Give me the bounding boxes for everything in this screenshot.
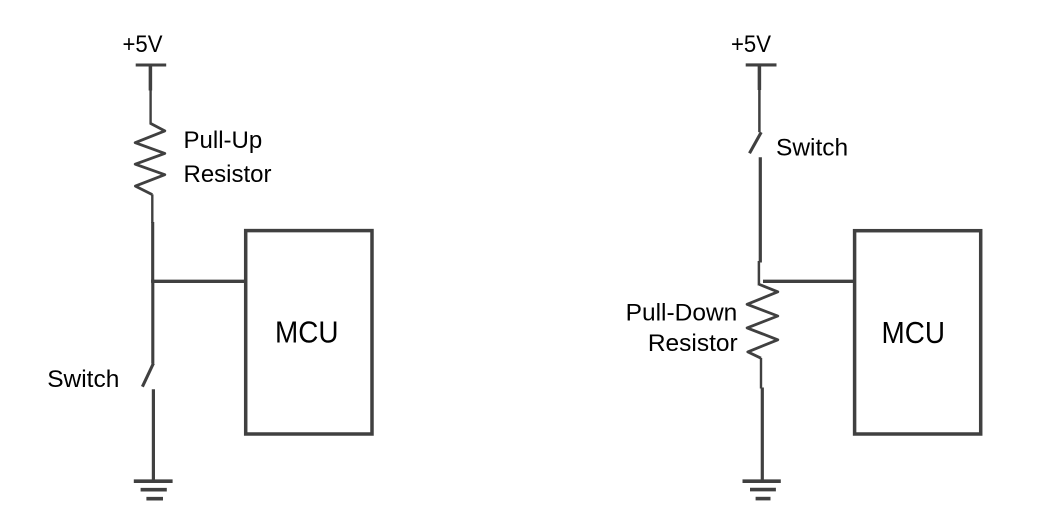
wire: +5V rail to switch (right) bbox=[758, 88, 761, 132]
svg-text:Switch: Switch bbox=[47, 366, 119, 393]
wire: switch to input node (right, upper) bbox=[759, 157, 762, 262]
wire: switch to ground (left) bbox=[152, 389, 155, 481]
svg-text:MCU: MCU bbox=[882, 315, 946, 350]
label: Pull-Up Resistor bbox=[184, 127, 272, 188]
resistor: Pull-Down bbox=[747, 285, 778, 359]
wire: resistor to ground jog (right) bbox=[760, 358, 762, 389]
+5V power rail symbol (right) bbox=[746, 65, 777, 90]
svg-text:MCU: MCU bbox=[275, 315, 339, 350]
switch SW blade (left) bbox=[142, 363, 153, 386]
wire: switch to input node (right, lower) bbox=[758, 261, 761, 286]
wire: +5V rail to pull-up resistor bbox=[149, 88, 151, 125]
+5V power rail symbol (left) bbox=[136, 65, 167, 91]
wire: input node to MCU (left) bbox=[151, 280, 246, 283]
resistor: Pull-Up bbox=[135, 123, 165, 194]
svg-text:Resistor: Resistor bbox=[648, 330, 738, 357]
svg-text:+5V: +5V bbox=[123, 31, 163, 58]
MCU U2 (right box) bbox=[855, 231, 981, 434]
svg-text:+5V: +5V bbox=[731, 31, 771, 58]
svg-text:Pull-Up: Pull-Up bbox=[184, 127, 263, 154]
wire: jog to ground (right) bbox=[761, 388, 764, 481]
ground symbol (right) bbox=[743, 481, 781, 498]
wire: resistor to input node (left) bbox=[151, 194, 153, 223]
wire: input node to MCU (right) bbox=[763, 280, 856, 283]
ground symbol (left) bbox=[134, 481, 173, 499]
svg-text:Switch: Switch bbox=[776, 134, 848, 161]
MCU U1 (left box) bbox=[246, 231, 372, 434]
wire: input node to switch (left) bbox=[151, 280, 154, 364]
svg-text:Resistor: Resistor bbox=[184, 161, 272, 188]
label: Pull-Down Resistor bbox=[626, 299, 738, 357]
svg-text:Pull-Down: Pull-Down bbox=[626, 299, 738, 326]
switch SW blade (right) bbox=[750, 132, 762, 153]
